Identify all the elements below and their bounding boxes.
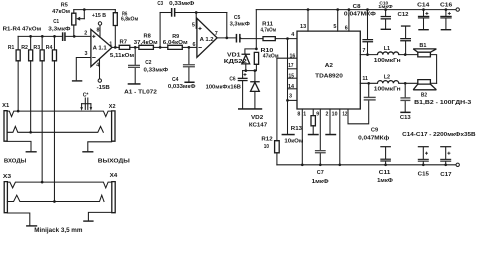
- svg-text:R4: R4: [46, 45, 53, 51]
- svg-text:12: 12: [342, 112, 347, 118]
- svg-text:B1,B2 - 100ГДН-3: B1,B2 - 100ГДН-3: [414, 100, 471, 106]
- svg-text:R2: R2: [21, 45, 28, 51]
- svg-text:100мкГн: 100мкГн: [374, 86, 401, 92]
- svg-text:VD2: VD2: [251, 115, 263, 121]
- svg-text:3: 3: [289, 94, 292, 100]
- svg-text:1мкФ: 1мкФ: [312, 179, 329, 185]
- svg-text:8: 8: [97, 27, 100, 33]
- svg-text:37,4кОм: 37,4кОм: [134, 40, 158, 46]
- svg-text:R3: R3: [33, 45, 40, 51]
- svg-text:-15В: -15В: [97, 85, 110, 91]
- svg-text:C14: C14: [417, 3, 430, 9]
- svg-text:R13: R13: [291, 126, 302, 132]
- svg-text:17: 17: [288, 63, 293, 69]
- svg-text:ВЫХОДЫ: ВЫХОДЫ: [98, 158, 130, 164]
- svg-text:A2: A2: [325, 63, 333, 69]
- svg-text:C2: C2: [145, 60, 151, 66]
- svg-text:R8: R8: [144, 33, 151, 39]
- svg-text:6: 6: [193, 42, 196, 48]
- svg-text:0,33мкФ: 0,33мкФ: [144, 67, 169, 73]
- svg-text:+15 В: +15 В: [92, 13, 106, 19]
- svg-text:3,3мкФ: 3,3мкФ: [230, 22, 251, 28]
- svg-text:VD1: VD1: [227, 53, 240, 59]
- svg-text:R5: R5: [61, 2, 68, 8]
- svg-text:100мкФх16В: 100мкФх16В: [206, 84, 241, 90]
- svg-text:TDA8920: TDA8920: [315, 74, 343, 80]
- svg-text:A 1.2: A 1.2: [200, 37, 214, 43]
- svg-text:L1: L1: [384, 46, 390, 52]
- svg-text:X1: X1: [2, 103, 9, 109]
- svg-text:C11: C11: [379, 170, 391, 176]
- svg-text:47кОм: 47кОм: [263, 54, 279, 60]
- svg-text:1мкФ: 1мкФ: [377, 178, 393, 184]
- svg-text:10: 10: [264, 144, 269, 150]
- svg-text:7: 7: [362, 48, 365, 54]
- svg-text:0,047МКф: 0,047МКф: [358, 135, 389, 142]
- svg-text:14: 14: [288, 84, 294, 90]
- svg-text:C*: C*: [83, 93, 90, 99]
- svg-text:100мкГн: 100мкГн: [374, 58, 401, 64]
- svg-text:4: 4: [291, 32, 294, 38]
- svg-text:9: 9: [316, 112, 319, 118]
- svg-text:C4: C4: [172, 77, 179, 83]
- svg-text:11: 11: [362, 76, 368, 82]
- svg-text:1: 1: [109, 42, 112, 48]
- svg-text:0,033мкФ: 0,033мкФ: [168, 84, 196, 90]
- svg-text:15: 15: [289, 74, 294, 80]
- svg-text:C17: C17: [440, 172, 451, 178]
- svg-text:ВХОДЫ: ВХОДЫ: [4, 158, 27, 164]
- svg-text:2: 2: [84, 30, 87, 36]
- svg-text:C5: C5: [234, 15, 240, 21]
- svg-text:C13: C13: [400, 115, 411, 121]
- svg-text:13: 13: [300, 24, 306, 30]
- svg-text:3,3мкФ: 3,3мкФ: [48, 26, 71, 32]
- svg-text:2: 2: [326, 112, 329, 118]
- svg-text:5,11кОм: 5,11кОм: [110, 53, 134, 59]
- svg-text:C14-C17 - 2200мкФх35В: C14-C17 - 2200мкФх35В: [402, 132, 475, 138]
- svg-text:Minijack 3,5 mm: Minijack 3,5 mm: [34, 228, 82, 234]
- svg-text:4: 4: [96, 63, 99, 69]
- svg-text:6,8кОм: 6,8кОм: [121, 17, 138, 23]
- svg-text:16: 16: [290, 54, 296, 60]
- svg-text:B1: B1: [419, 43, 426, 49]
- svg-text:A1 - TL072: A1 - TL072: [124, 90, 157, 96]
- svg-text:L2: L2: [384, 74, 390, 80]
- svg-text:A 1.1: A 1.1: [93, 45, 107, 51]
- svg-text:КД522: КД522: [224, 59, 247, 65]
- svg-text:5: 5: [192, 22, 195, 28]
- svg-text:7: 7: [215, 31, 218, 37]
- svg-text:8: 8: [297, 112, 300, 118]
- svg-text:4,7кОм: 4,7кОм: [261, 27, 277, 33]
- svg-text:C6: C6: [229, 76, 235, 82]
- svg-text:КС147: КС147: [249, 123, 267, 129]
- svg-text:0,33мкФ: 0,33мкФ: [169, 1, 195, 7]
- svg-text:1: 1: [303, 112, 306, 118]
- svg-text:C15: C15: [418, 171, 429, 177]
- svg-text:R1-R4 47кОм: R1-R4 47кОм: [3, 26, 42, 32]
- svg-text:3: 3: [85, 51, 88, 57]
- svg-text:0,047МКФ: 0,047МКФ: [344, 12, 376, 18]
- svg-text:B2: B2: [421, 93, 427, 99]
- svg-text:10кОм: 10кОм: [284, 139, 303, 145]
- svg-text:C9: C9: [371, 127, 378, 133]
- svg-text:C1: C1: [53, 19, 59, 25]
- svg-text:R7: R7: [120, 40, 128, 46]
- svg-text:X3: X3: [3, 174, 11, 180]
- svg-text:1мкФ: 1мкФ: [378, 4, 393, 9]
- svg-text:C16: C16: [440, 3, 452, 9]
- svg-text:X4: X4: [110, 173, 119, 179]
- svg-text:C3: C3: [157, 1, 163, 7]
- svg-text:6: 6: [345, 26, 348, 32]
- svg-text:C12: C12: [398, 12, 409, 18]
- svg-text:C7: C7: [317, 170, 324, 176]
- svg-text:C8: C8: [353, 4, 361, 10]
- svg-text:47кОм: 47кОм: [52, 9, 70, 15]
- svg-text:10: 10: [332, 112, 338, 118]
- svg-text:X2: X2: [109, 104, 116, 110]
- svg-text:5: 5: [333, 24, 336, 30]
- svg-text:6,04кОм: 6,04кОм: [163, 40, 188, 46]
- svg-text:R1: R1: [8, 45, 14, 51]
- svg-text:R12: R12: [261, 137, 272, 143]
